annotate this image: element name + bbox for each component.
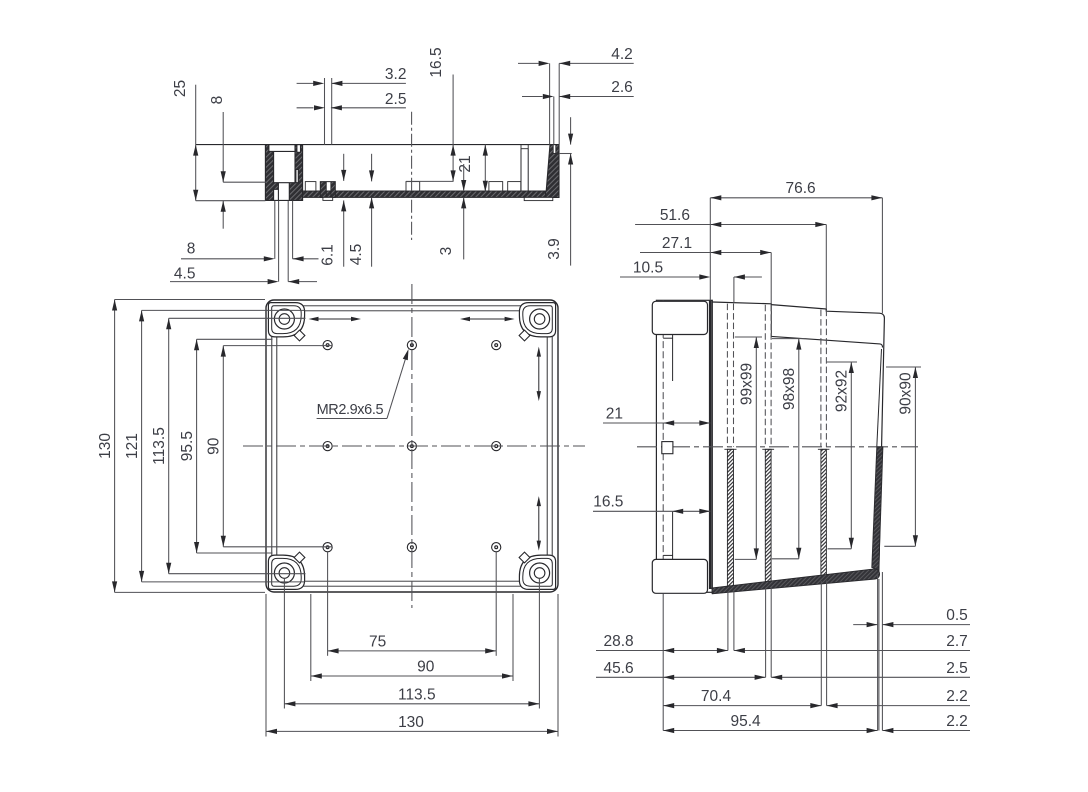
svg-text:45.6: 45.6 [604,660,634,677]
svg-text:90: 90 [417,659,435,676]
svg-text:8: 8 [187,241,196,258]
svg-text:28.8: 28.8 [604,633,634,650]
svg-text:21: 21 [606,405,623,422]
svg-text:2.2: 2.2 [946,688,968,705]
svg-text:0.5: 0.5 [946,607,968,624]
svg-text:113.5: 113.5 [151,427,168,465]
svg-text:76.6: 76.6 [786,180,816,197]
svg-text:2.2: 2.2 [946,713,968,730]
svg-text:MR2.9x6.5: MR2.9x6.5 [317,402,384,418]
svg-text:16.5: 16.5 [428,47,445,77]
svg-text:90: 90 [206,437,223,455]
svg-text:16.5: 16.5 [593,494,623,511]
svg-text:8: 8 [209,96,226,105]
svg-text:121: 121 [124,433,141,459]
svg-text:95.5: 95.5 [179,431,196,461]
svg-text:10.5: 10.5 [633,259,663,276]
svg-text:2.5: 2.5 [385,91,407,108]
svg-text:95.4: 95.4 [731,713,762,730]
svg-text:2.5: 2.5 [946,660,968,677]
svg-text:3: 3 [438,247,455,256]
svg-text:130: 130 [97,433,114,459]
svg-text:98x98: 98x98 [781,368,798,410]
svg-text:4.5: 4.5 [348,244,365,266]
svg-text:27.1: 27.1 [662,235,692,252]
svg-text:90x90: 90x90 [897,372,914,415]
svg-text:3.2: 3.2 [385,66,407,83]
svg-text:51.6: 51.6 [660,207,690,224]
svg-text:92x92: 92x92 [833,370,850,412]
svg-text:25: 25 [172,80,189,97]
svg-text:21: 21 [457,155,474,172]
svg-text:2.7: 2.7 [946,633,968,650]
svg-text:4.2: 4.2 [611,46,633,63]
svg-text:130: 130 [398,714,424,731]
svg-text:113.5: 113.5 [398,686,436,703]
svg-text:70.4: 70.4 [701,688,732,705]
svg-text:6.1: 6.1 [320,244,337,266]
svg-text:75: 75 [369,634,386,651]
svg-text:99x99: 99x99 [738,363,755,405]
svg-text:2.6: 2.6 [611,79,633,96]
svg-text:4.5: 4.5 [174,265,196,282]
svg-text:3.9: 3.9 [546,238,563,260]
